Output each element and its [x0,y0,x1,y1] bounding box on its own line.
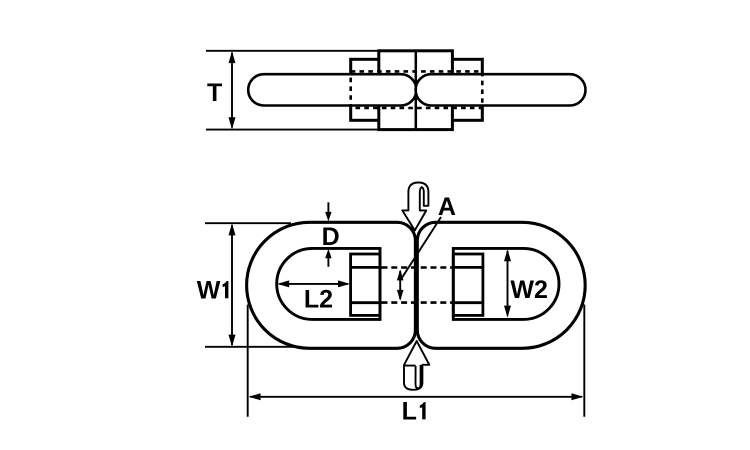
dimension T extension line bottom [206,129,379,131]
left pin block [351,254,380,315]
top view center body [379,51,453,130]
dimension T arrow [231,53,233,128]
dimension L2 arrow [280,283,349,285]
top view hidden cavity dashed [351,71,483,108]
rotation arrow top [402,183,428,231]
dimension L1 arrow [250,396,582,398]
svg-text:W: W [197,276,221,304]
dimension A arrow [399,271,401,299]
hidden pin dashed top [382,266,453,269]
left eye outer [247,222,416,348]
dimension L1 extension left [247,305,249,417]
dimension W1 arrow [231,225,233,345]
dimension W1 extension bottom [205,346,294,348]
top view right bar [416,74,586,105]
svg-text:W2: W2 [510,276,548,304]
right pin block [453,254,483,315]
top view left bar [248,74,416,105]
rotation arrow bottom [404,341,429,390]
top view washer body [351,59,483,120]
svg-text:A: A [438,193,456,221]
dimension W1 extension top [205,222,291,224]
dimension A leader [400,217,441,281]
dimension D bottom arrow [327,258,329,267]
svg-text:T: T [207,79,222,107]
top view center split line [415,51,418,130]
dimension L1 extension right [583,305,585,417]
dimension D top arrow [327,202,329,212]
right eye outer [417,222,585,348]
svg-text:L2: L2 [304,285,333,313]
right eye opening [453,248,559,319]
hidden pin dashed bottom [382,301,453,304]
svg-text:D: D [322,223,340,251]
svg-text:L: L [402,397,417,425]
dimension T extension line top [206,50,379,52]
dimension W2 arrow [507,251,509,316]
left eye opening [277,248,380,319]
